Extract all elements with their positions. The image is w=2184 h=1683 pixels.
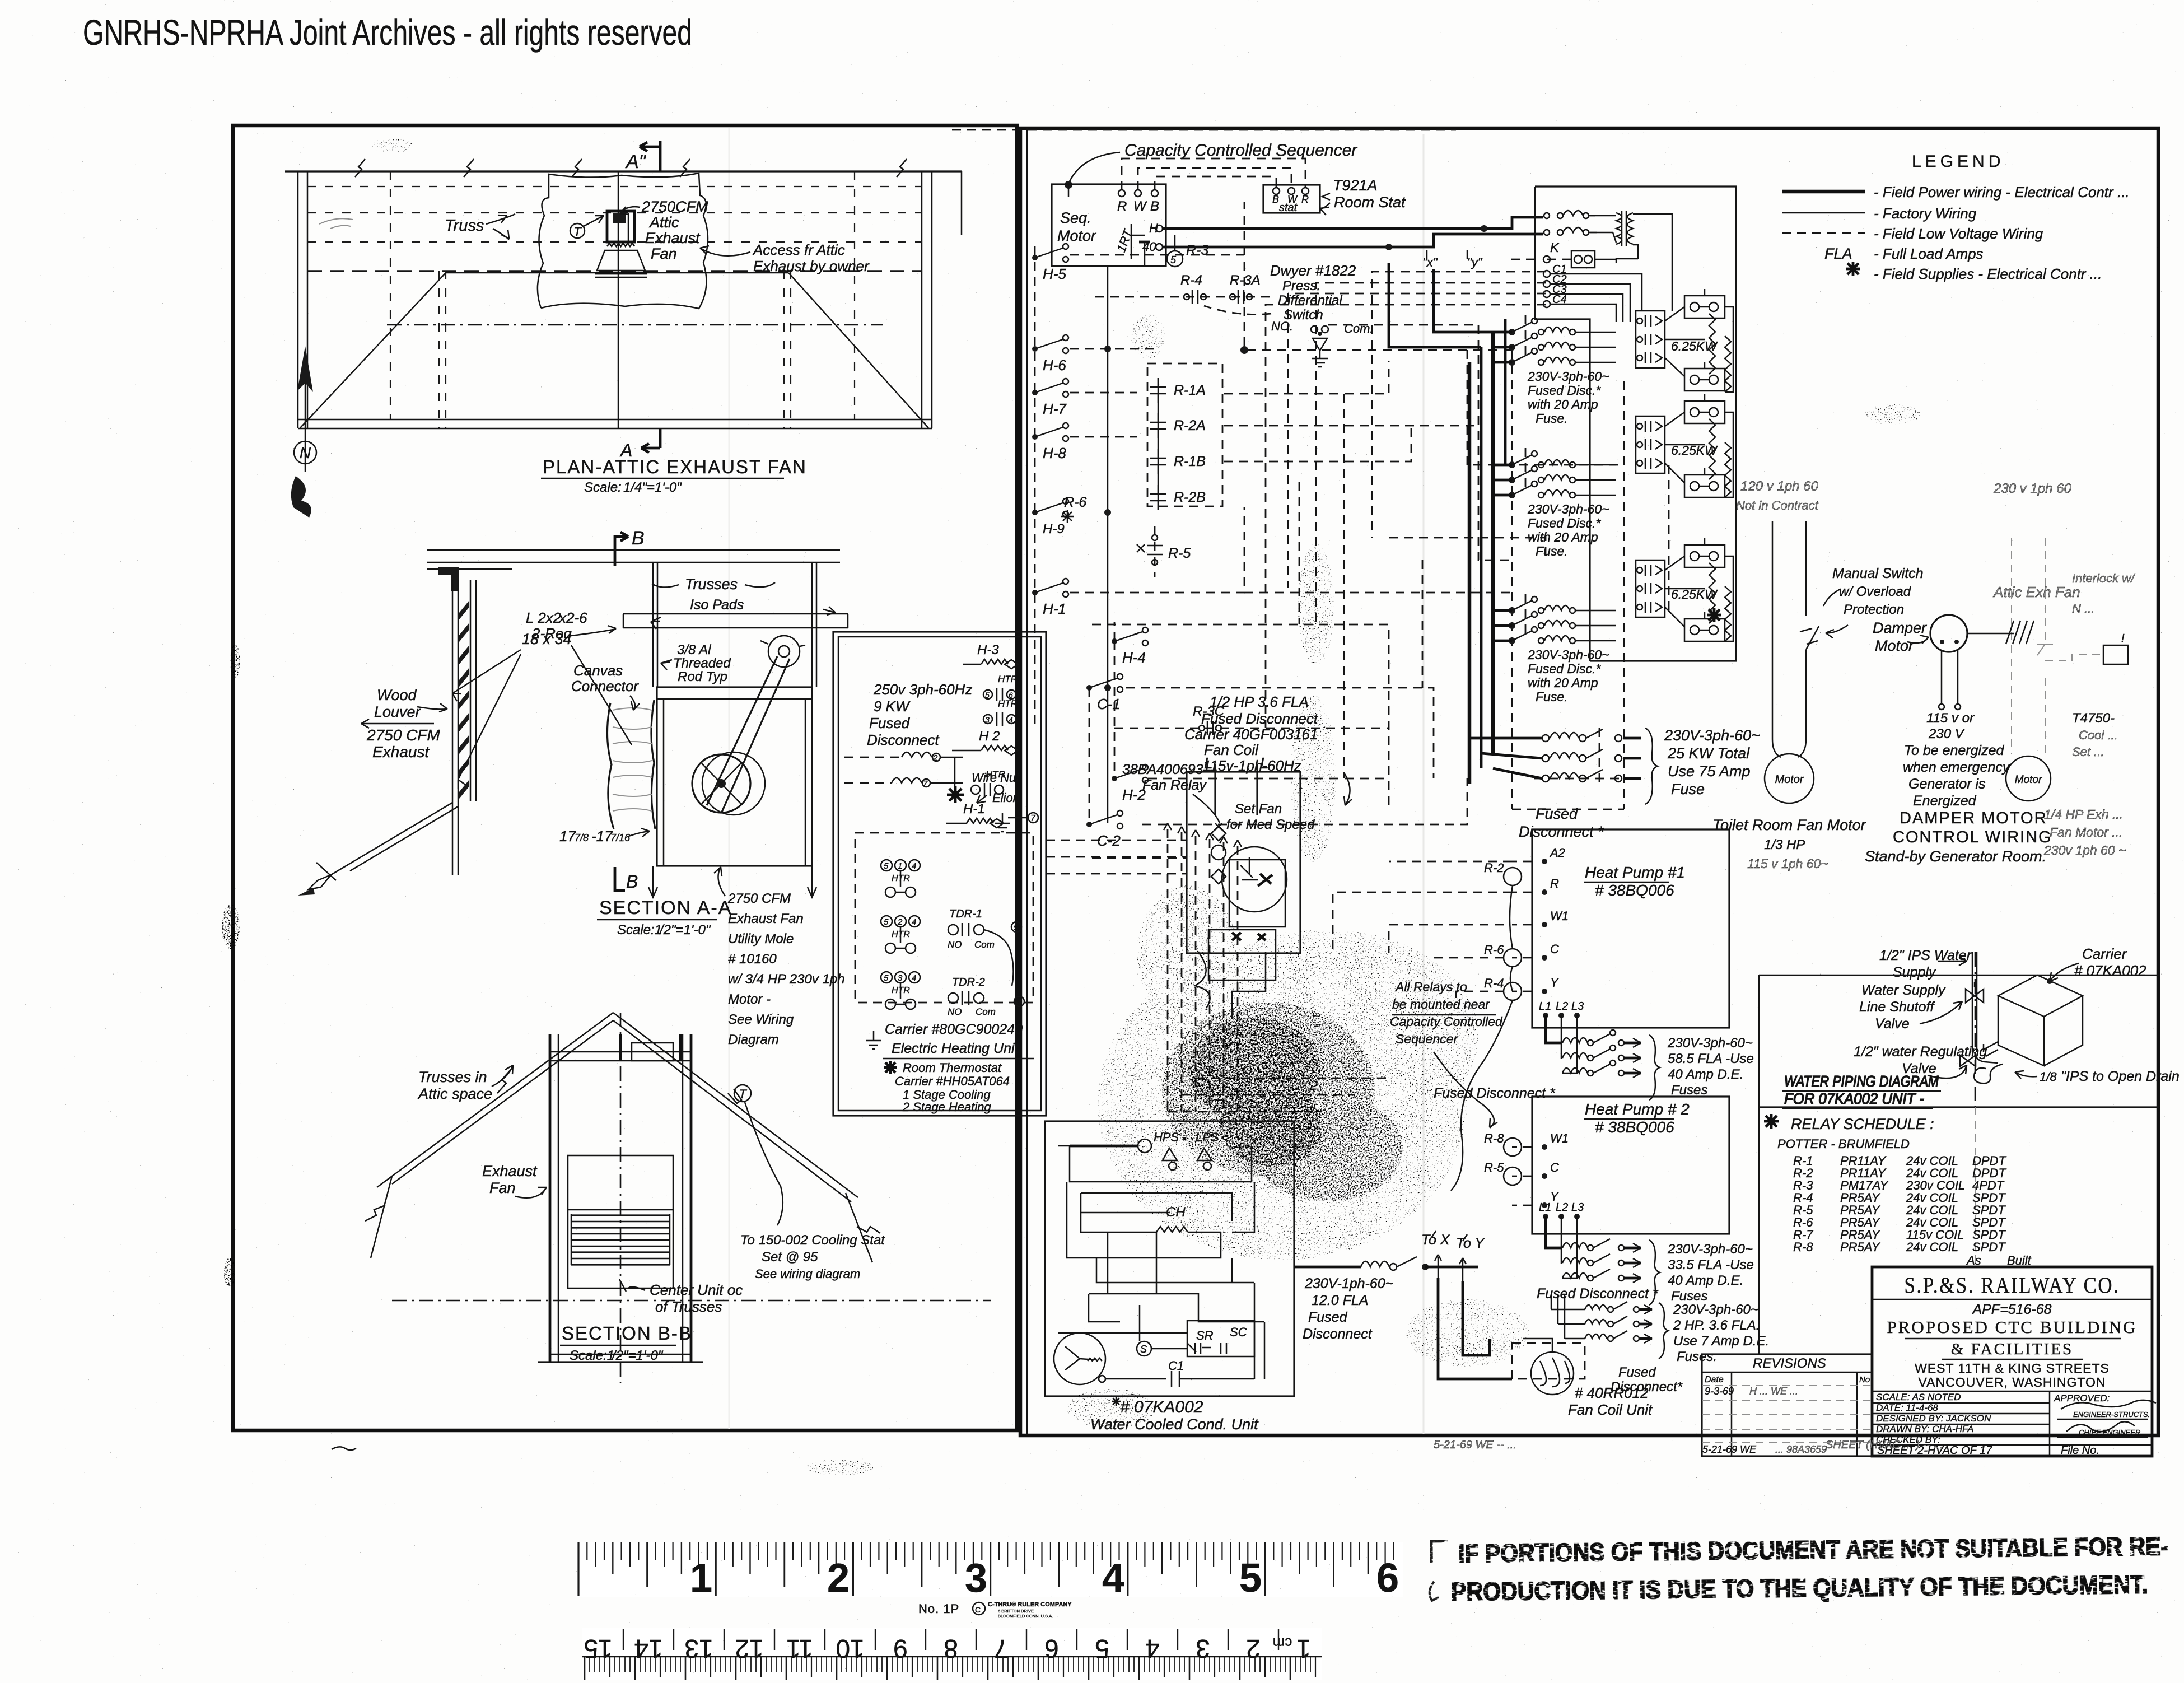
small ground symbol heating (1002, 813, 1004, 823)
dirt specks top left plan (319, 218, 353, 229)
contact R-5 vertical with star (1154, 526, 1156, 577)
plan attic exhaust fan: top wall line with break marks (285, 170, 962, 172)
fan unit top beam (550, 1051, 691, 1053)
heat pump 1 box (1532, 829, 1729, 1028)
dashed from switch to bus (1328, 324, 1478, 326)
dashed C lines exiting left (1506, 259, 1535, 260)
wire: heavy 40 line to transformer (1163, 234, 1543, 247)
sequencer motor box U-SEQ (1052, 184, 1166, 266)
contact H-5 (1032, 255, 1038, 260)
carrier 07KA002 cube (1998, 975, 2083, 1017)
dashed control bus mesh (1070, 255, 1512, 350)
terminal 7 right edge (1028, 813, 1038, 823)
hp2 fused disconnect rows (1546, 1216, 1562, 1248)
attic exhaust fan unit plan symbol (607, 211, 634, 242)
left roof slope line (331, 803, 452, 875)
fused disconnect group 1 (1509, 329, 1515, 335)
louver slats (459, 600, 469, 619)
ground hatch (2006, 621, 2014, 644)
fan box left wall lower extension (652, 866, 654, 896)
fused disconnect group 3 (1509, 607, 1515, 614)
plan vertical grid dashed right (854, 171, 855, 419)
x y tick labels (1431, 1231, 1467, 1241)
cond unit inner rects (1089, 1294, 1264, 1322)
heater bank 1 relay bottom (1684, 369, 1725, 391)
thermostat T circle BB (734, 1085, 751, 1102)
extra dashed mesh lines (1343, 394, 1345, 778)
contact C-2 (1086, 822, 1092, 827)
north arrow (305, 370, 306, 472)
right sheet left double edge (1026, 128, 1028, 1435)
contact H-4 (1112, 638, 1117, 644)
contactor row 1 (881, 860, 892, 871)
contact H-6 (1032, 346, 1038, 352)
plan bottom wall (298, 419, 932, 421)
hp1 fused disconnect rows (1546, 1015, 1562, 1043)
cond unit feeder heavy line (1294, 1266, 1361, 1269)
sheet seam dashed top (952, 129, 1456, 131)
revisions box (1702, 1354, 1872, 1456)
plan right wall (921, 171, 923, 428)
toilet fan wires (1772, 521, 1781, 757)
contact R-3A (1230, 294, 1235, 300)
legend star entry (1846, 262, 1860, 276)
plan interior wall dashed left (438, 271, 440, 428)
damper motor circle (1930, 615, 1967, 652)
title block table (2049, 1391, 2051, 1456)
factory wiring vertical (1107, 266, 1109, 823)
hp1 brace and label (1649, 1035, 1660, 1100)
eave gutter detail (309, 875, 331, 889)
motor pulley circle (768, 636, 800, 667)
dashed vertical bundle with arrowheads (1167, 829, 1169, 1112)
carrier electric heating unit patch outer border (833, 632, 1046, 1116)
heater bank 3 relay top (1684, 545, 1725, 567)
section BB centerline (620, 1013, 622, 1383)
dashed collectors below (1168, 1111, 1322, 1113)
heater bank 1 relay top (1684, 296, 1725, 318)
manual switch blade (1806, 626, 1819, 650)
room thermostat T921A box (1263, 185, 1320, 213)
hp1 wavy field wire down (1451, 1000, 1513, 1191)
section AA ceiling lines (427, 549, 840, 551)
ink smear on left border (222, 905, 240, 949)
fan motor circle (1222, 847, 1287, 912)
heater bank 3 resistors (1709, 563, 1715, 623)
hp1 pilot relays (1504, 868, 1522, 885)
fan relay diamonds (1211, 826, 1226, 841)
legend factory wiring sample (1782, 212, 1865, 214)
fused disconnect 25KW group (1542, 735, 1549, 742)
brace 25KW (1645, 728, 1658, 804)
supply arrow (1938, 961, 1967, 962)
control transformer T1 (1616, 213, 1622, 244)
thermostat T circle (570, 223, 585, 238)
roof slope break marks (497, 1070, 511, 1093)
canvas connector bellows (607, 703, 614, 829)
cond unit vertical drops (1232, 1258, 1264, 1379)
heater bank 1 resistors (1709, 314, 1715, 374)
heater bank 2 relay bottom (1684, 475, 1725, 497)
transformer secondary leads (1633, 214, 1672, 311)
damper motor leads (1941, 650, 1943, 703)
40RR012 fan coil unit (1531, 1352, 1574, 1395)
relay contact group R-1A R-2A R-1B R-2B dashed box (1147, 363, 1222, 506)
louver wall verticals (452, 580, 454, 875)
inch ruler body (576, 1542, 1403, 1597)
fan unit right post (682, 1034, 684, 1362)
cube connection stubs (1984, 1042, 1998, 1056)
attic fan wires faint (2011, 538, 2012, 754)
room stat dashed interconnect wiring (1122, 158, 1305, 190)
compressor motor circle (1054, 1333, 1105, 1384)
heater bank 2 relay top (1684, 401, 1725, 423)
fan coil bottom tangle (1195, 952, 1210, 1008)
cond unit wiring maze (1070, 1146, 1252, 1182)
fan coil terminals L L (1214, 764, 1216, 815)
hanger rod left (652, 562, 654, 687)
hp1 terminals (1542, 859, 1547, 864)
heating unit contactor dashed box (855, 833, 1033, 1003)
contact R-4 on dashed rung (1095, 296, 1271, 298)
contact R-2A (1150, 422, 1166, 423)
contactor row 3 (881, 972, 892, 983)
mm ticks (584, 1657, 586, 1680)
water supply pipe (1972, 952, 1973, 1052)
heating unit feeder dashed lines with fuses (844, 757, 902, 758)
ladder bus dashed vertical (1034, 246, 1036, 728)
sequencer terminals R W B (1118, 190, 1125, 197)
contact H-2 (1112, 776, 1117, 781)
vertical fold crease faint (1423, 134, 1425, 1434)
dirt cluster left border (230, 644, 240, 678)
plan lower chord dashed line (387, 324, 883, 326)
centimeter ruler body (582, 1628, 1322, 1680)
shutoff valve symbol (1966, 989, 1984, 1003)
plan eave dash-dot line (307, 270, 922, 272)
central smudge core (1188, 1018, 1320, 1121)
plan interior wall dashed right (783, 271, 785, 428)
heater bank 2 resistors (1709, 419, 1715, 479)
heater bank 3 capacitors (1636, 560, 1665, 617)
louver coil hatch (571, 1214, 670, 1216)
contact H-1 (1032, 590, 1038, 595)
plan left wall (297, 171, 299, 428)
plan hip left diagonal (300, 273, 446, 428)
heater bank 2 capacitors (1636, 416, 1665, 473)
heater bank 3 relay bottom (1684, 619, 1725, 641)
fan unit base (550, 1354, 691, 1355)
plan truss dashed lines (307, 186, 922, 187)
plan hip right diagonal (788, 273, 928, 428)
toilet fan motor circle (1765, 754, 1814, 803)
detail cloud outline around fan (538, 173, 708, 309)
heater bank 1 capacitors (1636, 311, 1665, 368)
plan vertical grid dashed left (390, 171, 391, 419)
terminals C1-C4 (1543, 271, 1550, 277)
star mark toilet (1707, 608, 1721, 622)
contact R-2B (1150, 493, 1166, 495)
fan coil disconnect brace (1659, 1303, 1668, 1359)
left sheet border (233, 125, 1017, 1430)
relay schedule title (1764, 1114, 1779, 1129)
ceiling dash line (392, 1300, 991, 1302)
room thermostat note (884, 1061, 897, 1074)
water piping section divider lines (1759, 975, 2159, 976)
junction cluster (947, 786, 964, 803)
fused disconnect group 2 (1509, 461, 1515, 468)
ground in contactor box (873, 1031, 875, 1041)
hp1 long dashed feeders (1389, 861, 1512, 863)
fuse line 2 from 40 (1544, 230, 1550, 235)
right sheet border (1020, 128, 2158, 1435)
fan unit inner box (568, 1155, 673, 1288)
cm cell dividers (623, 1629, 624, 1650)
attic fan motor circle (2006, 756, 2051, 801)
hanger rod right (811, 562, 813, 687)
stray scribble below section BB (332, 1447, 356, 1450)
contact R-1A (1150, 386, 1166, 388)
contact C-1 (1086, 685, 1092, 691)
relay coil R-3 (1167, 251, 1183, 267)
reproduction quality stamp (1429, 1532, 2169, 1606)
pressure switch symbol (1311, 326, 1318, 333)
inch ruler ticks (577, 1542, 579, 1596)
fan coil inner wiring box (1229, 860, 1285, 927)
fuse line 1 from H (1544, 213, 1550, 218)
section AA corner eave dark angle (438, 567, 459, 591)
transformer box border (1535, 187, 1736, 661)
hp2 pilot relays (1504, 1138, 1522, 1156)
water cooled cond unit box (1045, 1121, 1294, 1396)
fan coil unit box (1187, 772, 1300, 953)
contact R-1B (1150, 458, 1166, 459)
belt lines (707, 656, 777, 805)
drain squiggle (1974, 1064, 2003, 1083)
fan coil unit disconnect rows (1551, 1294, 1552, 1309)
hp2 terminals (1542, 1144, 1547, 1150)
contact H-8 (1032, 434, 1038, 440)
vertical crease dash line (1975, 952, 1976, 1107)
heavy feeders from sequencer lines (1434, 269, 1493, 332)
mm scale line (582, 1656, 1322, 1658)
contact R-3C on dashed rung (1114, 728, 1389, 729)
heat pump 2 box (1532, 1097, 1729, 1234)
title block outer box (1872, 1267, 2152, 1456)
fan bell mouth (597, 250, 645, 271)
hp2 brace and label (1649, 1240, 1660, 1305)
dashed feeders into fan coil (1046, 840, 1187, 841)
attic fan stat box (2103, 645, 2128, 664)
legend field power wiring sample (1782, 190, 1865, 194)
legend field low voltage sample (1782, 232, 1865, 234)
wire: heavy H line to transformer (1163, 217, 1543, 229)
fan wheel circle (692, 754, 750, 813)
plan hip ridge line (446, 272, 788, 274)
damper motor ground line (1967, 633, 2014, 635)
contact R-6 with star (1032, 510, 1038, 515)
C wires to cap banks (1550, 274, 1642, 311)
section BB roof right slope (613, 1013, 858, 1197)
regulating valve symbol (1960, 1055, 1976, 1066)
central smudge mid (1162, 1003, 1375, 1176)
contactor row 2 (881, 916, 892, 927)
fan box outer frame (657, 687, 812, 866)
contact H-7 (1032, 390, 1038, 395)
fan unit left post (549, 1034, 552, 1362)
heavy feeder verticals (1491, 332, 1495, 753)
plan centerline (618, 171, 619, 428)
section BB roof left slope (377, 1013, 613, 1187)
smudge streak upper (1291, 694, 1336, 863)
motor hump on top (632, 1043, 673, 1061)
central smudge halo (1098, 947, 1467, 1260)
iso pad beam (623, 613, 848, 615)
